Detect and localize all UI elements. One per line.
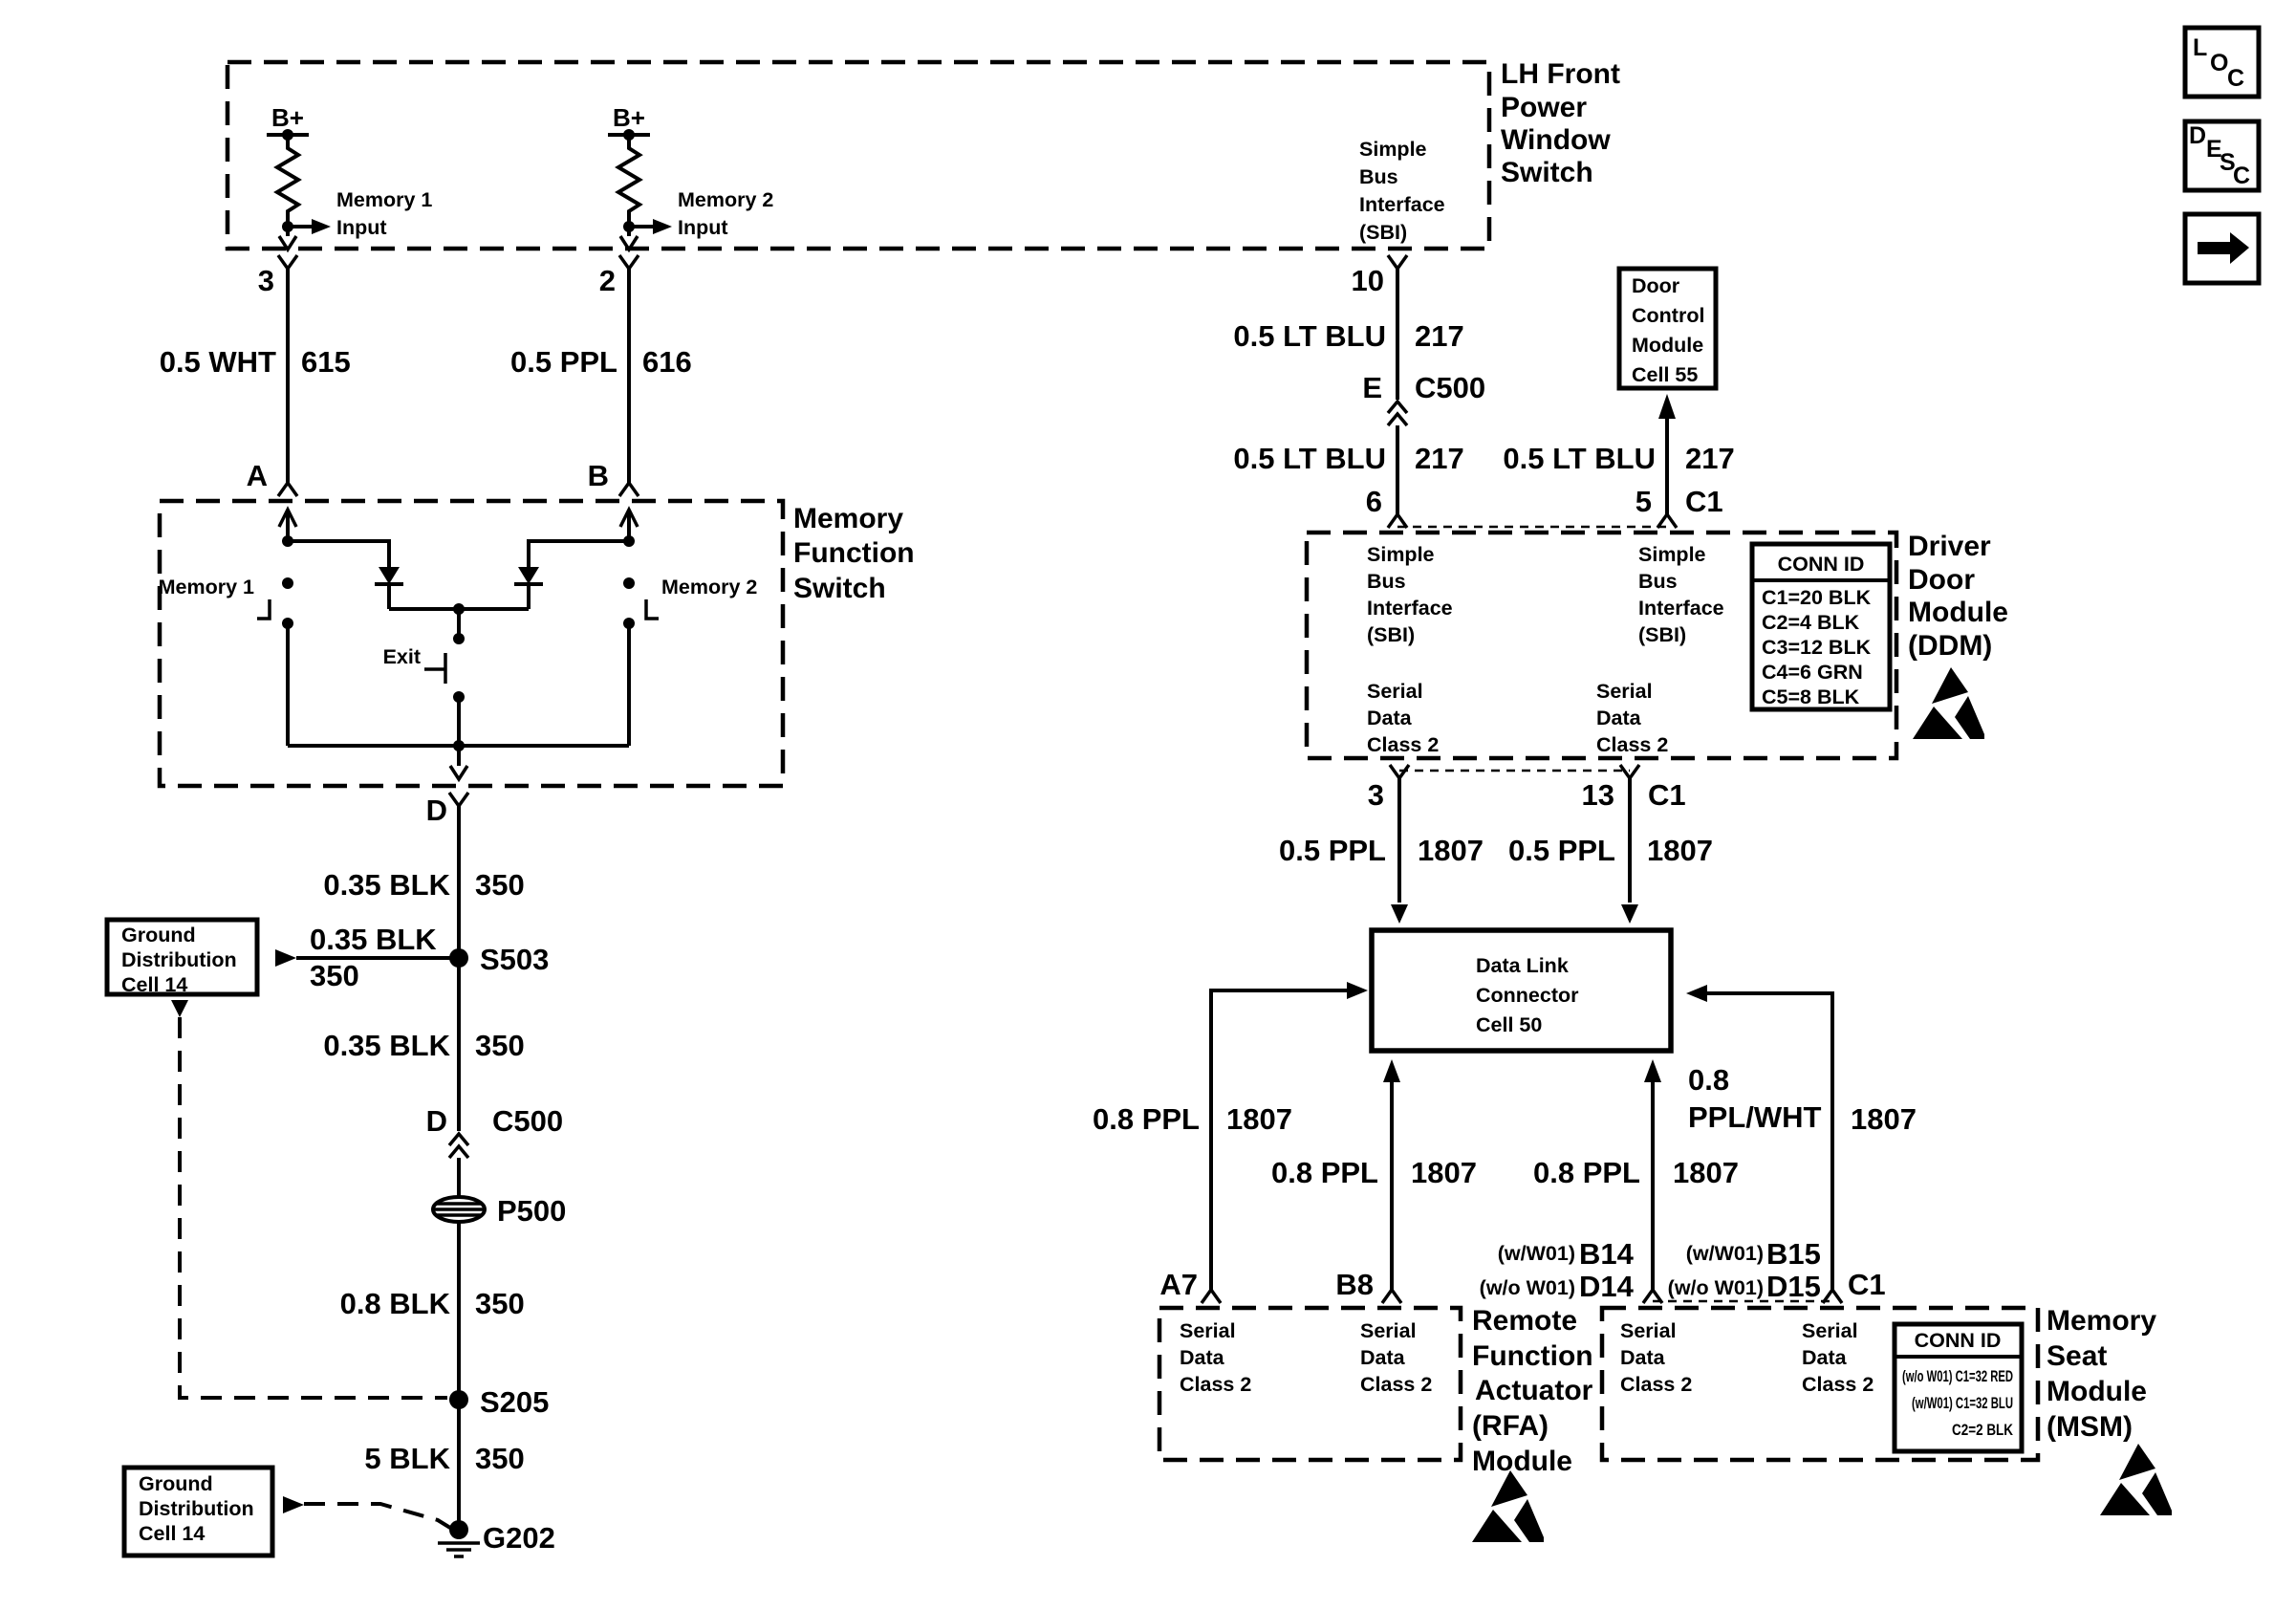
wire: D2 to diode bus <box>527 584 531 609</box>
svg-text:350: 350 <box>310 959 359 992</box>
svg-text:L: L <box>2193 34 2207 61</box>
svg-text:350: 350 <box>475 1029 525 1062</box>
MSM pin B14/D14 connector <box>1643 1290 1662 1303</box>
svg-text:Actuator: Actuator <box>1475 1375 1593 1406</box>
icon box DESC <box>2185 121 2259 190</box>
svg-text:Window: Window <box>1501 124 1611 156</box>
svg-text:C: C <box>2227 65 2244 92</box>
svg-text:Ground: Ground <box>139 1472 213 1495</box>
svg-text:1807: 1807 <box>1851 1102 1917 1136</box>
Memory 1 switch bottom contact <box>282 618 293 629</box>
box: Ground Distribution Cell 14 (upper) <box>107 920 257 994</box>
box: Door Control Module Cell 55 <box>1619 269 1716 388</box>
svg-text:Remote: Remote <box>1472 1305 1577 1337</box>
svg-text:Class 2: Class 2 <box>1596 733 1668 756</box>
arrow out of switch at pin 2 <box>620 236 638 250</box>
wire 217: DDM pin 5 to Door Control Module <box>1665 419 1669 514</box>
wire: R2 to pin 2 <box>627 227 631 236</box>
wire 350: D to C500 <box>457 806 461 1131</box>
svg-text:(RFA): (RFA) <box>1472 1410 1549 1442</box>
svg-text:CONN ID: CONN ID <box>1915 1329 2002 1352</box>
svg-text:0.5 PPL: 0.5 PPL <box>1279 834 1386 867</box>
svg-text:0.35 BLK: 0.35 BLK <box>323 1029 450 1062</box>
svg-text:G202: G202 <box>483 1521 555 1555</box>
svg-text:Cell 14: Cell 14 <box>121 973 187 996</box>
svg-text:Class 2: Class 2 <box>1180 1373 1251 1396</box>
svg-text:B+: B+ <box>613 103 645 132</box>
svg-text:615: 615 <box>301 345 351 379</box>
arrow into DLC from pin 3 <box>1391 904 1408 924</box>
svg-text:0.5 PPL: 0.5 PPL <box>510 345 617 379</box>
svg-text:A7: A7 <box>1159 1268 1198 1301</box>
terminal D connector <box>449 793 468 806</box>
svg-text:Bus: Bus <box>1359 165 1398 188</box>
Memory 2 switch top contact <box>623 577 635 589</box>
svg-text:Distribution: Distribution <box>121 948 237 971</box>
svg-text:0.8 BLK: 0.8 BLK <box>340 1287 451 1320</box>
svg-text:Data: Data <box>1367 707 1413 729</box>
svg-text:Data: Data <box>1802 1346 1848 1369</box>
svg-text:Data: Data <box>1360 1346 1406 1369</box>
module box: Remote Function Actuator Module (dashed) <box>1159 1308 1461 1460</box>
svg-text:0.8 PPL: 0.8 PPL <box>1533 1156 1640 1189</box>
wire: bus to terminal D <box>457 746 461 766</box>
svg-text:Memory 1: Memory 1 <box>159 576 254 598</box>
svg-text:Door: Door <box>1632 274 1680 297</box>
svg-text:0.8 PPL: 0.8 PPL <box>1093 1102 1200 1136</box>
svg-text:Switch: Switch <box>793 573 886 604</box>
arrow into DLC from B8 <box>1383 1059 1400 1082</box>
svg-text:Seat: Seat <box>2047 1340 2107 1372</box>
svg-text:Module: Module <box>2047 1376 2147 1407</box>
svg-text:0.5 LT BLU: 0.5 LT BLU <box>1233 442 1386 475</box>
arrow: Memory 1 Input <box>312 219 331 234</box>
svg-text:Simple: Simple <box>1367 543 1435 566</box>
svg-text:(SBI): (SBI) <box>1359 221 1407 244</box>
svg-text:Module: Module <box>1472 1446 1572 1477</box>
svg-text:3: 3 <box>1368 778 1384 812</box>
RFA pin A7 connector <box>1202 1290 1221 1303</box>
svg-text:Distribution: Distribution <box>139 1497 254 1520</box>
connector C1 dashed tie (top) <box>1397 526 1667 529</box>
box: Ground Distribution Cell 14 (lower) <box>124 1468 272 1556</box>
wire: memory 2 input branch <box>629 225 653 228</box>
wire: D1 to diode bus <box>387 584 391 609</box>
svg-text:5: 5 <box>1635 485 1652 518</box>
svg-text:B+: B+ <box>271 103 304 132</box>
svg-text:C2=2 BLK: C2=2 BLK <box>1952 1421 2014 1439</box>
RFA pin B8 connector <box>1382 1290 1401 1303</box>
svg-text:B8: B8 <box>1335 1268 1374 1301</box>
arrow out of switch at D <box>450 766 467 779</box>
svg-text:(SBI): (SBI) <box>1367 623 1415 646</box>
svg-text:(w/o W01): (w/o W01) <box>1480 1276 1575 1299</box>
svg-text:0.8 PPL: 0.8 PPL <box>1271 1156 1378 1189</box>
node: A branch junction <box>282 535 293 547</box>
svg-text:0.8: 0.8 <box>1688 1063 1729 1097</box>
arrow: Memory 2 Input <box>653 219 672 234</box>
svg-text:1807: 1807 <box>1647 834 1713 867</box>
wire 616: pin 2 to B <box>627 269 631 483</box>
module box: Memory Function Switch (dashed) <box>160 501 783 786</box>
CONN ID table (MSM) <box>1895 1324 2022 1451</box>
svg-text:217: 217 <box>1685 442 1735 475</box>
svg-text:B15: B15 <box>1766 1237 1821 1271</box>
svg-text:Cell 55: Cell 55 <box>1632 363 1698 386</box>
wire 1807: RFA A7 to DLC (left entry) <box>1211 990 1347 1290</box>
CONN ID table (DDM) <box>1752 544 1890 709</box>
svg-text:Interface: Interface <box>1367 597 1453 620</box>
svg-text:Ground: Ground <box>121 924 196 946</box>
icon box right-arrow <box>2185 214 2259 283</box>
svg-text:0.5 WHT: 0.5 WHT <box>160 345 276 379</box>
svg-text:Memory 2: Memory 2 <box>678 188 773 211</box>
ground dot G202 <box>449 1520 468 1539</box>
ESD symbol RFA <box>1472 1470 1544 1542</box>
svg-text:217: 217 <box>1415 442 1464 475</box>
svg-text:B: B <box>588 459 609 492</box>
svg-text:Serial: Serial <box>1360 1319 1417 1342</box>
svg-text:Door: Door <box>1908 564 1975 596</box>
svg-text:Data: Data <box>1596 707 1642 729</box>
arrow from lower ground distribution <box>283 1496 304 1513</box>
svg-text:(w/o W01): (w/o W01) <box>1668 1276 1764 1299</box>
wire: ground distribution branch to S503 <box>296 956 459 960</box>
ESD symbol MSM <box>2100 1444 2172 1515</box>
DDM pin 3 connector <box>1390 765 1409 778</box>
svg-text:Serial: Serial <box>1367 680 1423 703</box>
svg-text:10: 10 <box>1352 264 1384 297</box>
svg-text:616: 616 <box>642 345 692 379</box>
svg-text:Serial: Serial <box>1180 1319 1236 1342</box>
Exit switch lever horizontal <box>424 667 445 671</box>
node: B branch junction <box>623 535 635 547</box>
splice S503 <box>449 948 468 968</box>
svg-text:6: 6 <box>1366 485 1382 518</box>
Memory 2 switch lever <box>646 599 659 619</box>
svg-text:Module: Module <box>1908 597 2008 628</box>
connector C1 dashed tie (MSM) <box>1653 1300 1832 1303</box>
svg-text:P500: P500 <box>497 1194 566 1228</box>
box: Data Link Connector Cell 50 <box>1372 930 1671 1051</box>
module box: Memory Seat Module (dashed) <box>1602 1308 2038 1460</box>
wire: bottom bus <box>288 744 629 748</box>
grommet P500 <box>433 1197 485 1222</box>
svg-text:A: A <box>247 459 268 492</box>
svg-text:Connector: Connector <box>1476 984 1579 1007</box>
wire into switch from A <box>279 510 296 527</box>
wire 1807: MSM C1 to DLC (right entry) <box>1707 993 1832 1290</box>
svg-text:E: E <box>1362 371 1382 404</box>
svg-text:1807: 1807 <box>1418 834 1484 867</box>
svg-text:Memory 2: Memory 2 <box>661 576 757 598</box>
DDM pin 5 connector <box>1657 514 1677 528</box>
svg-text:350: 350 <box>475 1442 525 1475</box>
svg-text:5 BLK: 5 BLK <box>364 1442 450 1475</box>
wire: diode bus <box>389 607 529 611</box>
svg-text:Data: Data <box>1620 1346 1666 1369</box>
svg-text:2: 2 <box>599 264 616 297</box>
dashed wire to G202 <box>304 1504 450 1528</box>
svg-text:S503: S503 <box>480 943 549 976</box>
diode D2 <box>518 567 539 584</box>
svg-text:C: C <box>2233 163 2250 189</box>
svg-text:D14: D14 <box>1579 1270 1635 1303</box>
svg-text:13: 13 <box>1582 778 1614 812</box>
Memory 2 switch bottom contact <box>623 618 635 629</box>
terminal A connector <box>278 483 297 496</box>
node: diode bus center <box>453 603 465 615</box>
Exit switch lever vertical <box>444 653 447 684</box>
svg-text:D: D <box>2189 122 2206 149</box>
svg-text:B14: B14 <box>1579 1237 1635 1271</box>
wire: Memory 2 to bottom bus <box>627 623 631 746</box>
svg-text:(w/o W01) C1=32 RED: (w/o W01) C1=32 RED <box>1902 1367 2013 1385</box>
svg-text:Class 2: Class 2 <box>1367 733 1439 756</box>
wire: bus to exit contact <box>457 609 461 639</box>
node: memory 1 input junction <box>282 221 293 232</box>
wire: A junction to diode D1 <box>288 541 389 567</box>
svg-text:0.5 PPL: 0.5 PPL <box>1508 834 1615 867</box>
wire: C500 to G202 <box>457 1158 461 1528</box>
svg-text:Input: Input <box>336 216 387 239</box>
svg-text:Exit: Exit <box>383 645 421 668</box>
svg-text:CONN ID: CONN ID <box>1778 553 1865 576</box>
wire 1807: RFA B8 to DLC <box>1390 1082 1394 1290</box>
svg-text:C5=8 BLK: C5=8 BLK <box>1762 685 1860 708</box>
arrow below ground distribution box <box>171 1000 188 1017</box>
svg-text:3: 3 <box>258 264 274 297</box>
svg-text:S205: S205 <box>480 1385 549 1419</box>
svg-text:0.35 BLK: 0.35 BLK <box>323 868 450 902</box>
icon box LOC <box>2185 28 2259 97</box>
node: exit switch top contact <box>453 633 465 644</box>
arrow into DLC from pin 13 <box>1621 904 1638 924</box>
svg-text:C500: C500 <box>1415 371 1485 404</box>
arrow into DLC right <box>1686 985 1707 1002</box>
pin 3 connector <box>278 255 297 269</box>
svg-text:Serial: Serial <box>1596 680 1653 703</box>
svg-text:Memory: Memory <box>793 503 903 534</box>
svg-text:Cell 50: Cell 50 <box>1476 1013 1542 1036</box>
svg-text:C1: C1 <box>1648 778 1686 812</box>
svg-text:Bus: Bus <box>1638 570 1678 593</box>
pin 10 connector <box>1388 255 1407 269</box>
svg-text:D: D <box>426 794 447 827</box>
svg-text:C500: C500 <box>492 1104 563 1138</box>
svg-text:0.5 LT BLU: 0.5 LT BLU <box>1503 442 1656 475</box>
svg-text:Memory: Memory <box>2047 1305 2156 1337</box>
svg-text:0.35 BLK: 0.35 BLK <box>310 923 437 956</box>
svg-text:Interface: Interface <box>1638 597 1724 620</box>
svg-text:(w/W01): (w/W01) <box>1686 1242 1764 1265</box>
arrow into DLC left <box>1347 982 1368 999</box>
wire 1807: MSM B14/D14 to DLC <box>1651 1082 1655 1290</box>
svg-text:Control: Control <box>1632 304 1704 327</box>
svg-text:0.5 LT BLU: 0.5 LT BLU <box>1233 319 1386 353</box>
splice S205 <box>449 1390 468 1409</box>
svg-text:Class 2: Class 2 <box>1802 1373 1874 1396</box>
terminal B connector <box>619 483 639 496</box>
svg-text:C3=12 BLK: C3=12 BLK <box>1762 636 1872 659</box>
svg-text:Input: Input <box>678 216 728 239</box>
svg-text:Data Link: Data Link <box>1476 954 1569 977</box>
svg-text:C1: C1 <box>1848 1268 1886 1301</box>
svg-text:Simple: Simple <box>1638 543 1706 566</box>
wire: Exit to bottom bus <box>457 697 461 746</box>
svg-text:1807: 1807 <box>1673 1156 1739 1189</box>
resistor R1 (memory 1 input pull-up) <box>277 135 298 227</box>
svg-text:(MSM): (MSM) <box>2047 1411 2133 1443</box>
ESD symbol DDM <box>1913 667 1984 739</box>
svg-text:Module: Module <box>1632 334 1703 357</box>
wire: B junction to diode D2 <box>529 541 629 567</box>
DDM pin 13 connector <box>1620 765 1639 778</box>
svg-text:D: D <box>426 1104 447 1138</box>
node: bottom bus center <box>453 740 465 751</box>
wire 1807: DDM pin 13 to DLC <box>1628 778 1632 903</box>
svg-text:Cell 14: Cell 14 <box>139 1522 205 1545</box>
arrow into Door Control Module <box>1658 394 1676 419</box>
svg-text:Bus: Bus <box>1367 570 1406 593</box>
connector C1 dashed tie (bottom) <box>1399 770 1630 772</box>
svg-text:LH Front: LH Front <box>1501 58 1620 90</box>
svg-text:Serial: Serial <box>1802 1319 1858 1342</box>
svg-text:Switch: Switch <box>1501 157 1593 188</box>
arrow into DLC from B14/D14 <box>1644 1059 1661 1082</box>
svg-text:O: O <box>2210 50 2228 76</box>
svg-text:350: 350 <box>475 1287 525 1320</box>
diode D1 <box>379 567 400 584</box>
svg-text:Simple: Simple <box>1359 138 1427 161</box>
svg-text:Data: Data <box>1180 1346 1225 1369</box>
svg-text:C1: C1 <box>1685 485 1723 518</box>
svg-text:217: 217 <box>1415 319 1464 353</box>
svg-text:Interface: Interface <box>1359 193 1445 216</box>
wire into switch from B <box>620 510 638 527</box>
resistor R2 (memory 2 input pull-up) <box>618 135 639 227</box>
svg-text:Class 2: Class 2 <box>1620 1373 1692 1396</box>
svg-text:Memory 1: Memory 1 <box>336 188 432 211</box>
arrow out of switch at pin 3 <box>279 236 296 250</box>
wire: memory 1 input branch <box>288 225 312 228</box>
wire 1807: DDM pin 3 to DLC <box>1397 778 1401 903</box>
node: memory 2 input junction <box>623 221 635 232</box>
svg-text:Function: Function <box>793 537 915 569</box>
module box: Driver Door Module (dashed) <box>1307 533 1896 758</box>
svg-text:350: 350 <box>475 868 525 902</box>
Memory 1 switch top contact <box>282 577 293 589</box>
wire 217: C500 E to DDM pin 6 <box>1396 425 1399 514</box>
svg-text:1807: 1807 <box>1226 1102 1292 1136</box>
svg-text:1807: 1807 <box>1411 1156 1477 1189</box>
svg-text:Driver: Driver <box>1908 531 1991 562</box>
pin 2 connector <box>619 255 639 269</box>
svg-text:C4=6 GRN: C4=6 GRN <box>1762 661 1863 684</box>
svg-text:C2=4 BLK: C2=4 BLK <box>1762 611 1860 634</box>
Memory 1 switch lever <box>257 599 270 619</box>
svg-text:Function: Function <box>1472 1340 1593 1372</box>
MSM pin B15/D15 connector <box>1823 1290 1842 1303</box>
wire 217: pin 10 to C500 E <box>1396 269 1399 400</box>
svg-text:C1=20 BLK: C1=20 BLK <box>1762 586 1872 609</box>
svg-text:D15: D15 <box>1766 1270 1821 1303</box>
svg-text:(w/W01) C1=32 BLU: (w/W01) C1=32 BLU <box>1912 1394 2013 1412</box>
svg-text:PPL/WHT: PPL/WHT <box>1688 1100 1822 1134</box>
svg-text:Power: Power <box>1501 92 1587 123</box>
arrow from ground distribution <box>275 949 296 967</box>
DDM pin 6 connector <box>1388 514 1407 528</box>
module box: LH Front Power Window Switch (dashed) <box>227 62 1489 249</box>
svg-text:(SBI): (SBI) <box>1638 623 1686 646</box>
wire: R1 to pin 3 <box>286 227 290 236</box>
Exit switch bottom contact <box>453 691 465 703</box>
svg-text:Serial: Serial <box>1620 1319 1677 1342</box>
wire 615: pin 3 to A <box>286 269 290 483</box>
svg-text:(w/W01): (w/W01) <box>1498 1242 1575 1265</box>
svg-text:(DDM): (DDM) <box>1908 630 1992 662</box>
svg-text:Class 2: Class 2 <box>1360 1373 1432 1396</box>
wire: Memory 1 to bottom bus <box>286 623 290 746</box>
